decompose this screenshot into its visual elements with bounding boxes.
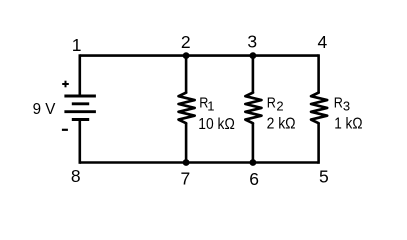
svg-text:1: 1 <box>207 99 214 114</box>
wire right branch node 4 to R3 <box>317 54 320 93</box>
junction dot node 3 <box>250 52 257 59</box>
junction dot node 6 <box>250 159 257 166</box>
resistor R2 zigzag <box>245 93 261 124</box>
junction dot node 2 <box>183 52 190 59</box>
wire branch node 2 to R1 <box>185 56 188 94</box>
wire bottom rail nodes 8-7-6-5 <box>80 161 319 164</box>
wire left branch lower (battery - to node 8) <box>79 120 82 164</box>
svg-text:3: 3 <box>343 98 350 113</box>
svg-text:7: 7 <box>181 169 191 189</box>
svg-text:2 kΩ: 2 kΩ <box>267 115 296 132</box>
svg-text:2: 2 <box>276 98 283 113</box>
battery + polarity mark <box>62 81 69 88</box>
svg-text:9 V: 9 V <box>33 101 56 118</box>
svg-text:3: 3 <box>247 32 257 52</box>
svg-text:8: 8 <box>71 166 81 186</box>
wire R3 to node 5 <box>317 123 320 164</box>
svg-text:R: R <box>334 95 343 111</box>
svg-text:4: 4 <box>318 32 328 52</box>
wire R1 to node 7 <box>185 123 188 163</box>
battery - polarity mark <box>62 129 68 131</box>
wire top rail nodes 1-2-3-4 <box>80 54 319 57</box>
wire branch node 3 to R2 <box>252 56 255 94</box>
wire left branch upper (node 1 to battery +) <box>79 54 82 95</box>
junction dot node 7 <box>183 159 190 166</box>
svg-text:6: 6 <box>249 169 259 189</box>
resistor R1 zigzag <box>179 93 195 124</box>
svg-text:1 kΩ: 1 kΩ <box>334 115 362 132</box>
svg-text:10 kΩ: 10 kΩ <box>198 116 235 133</box>
svg-text:2: 2 <box>181 32 191 52</box>
svg-text:R: R <box>267 95 276 111</box>
wire R2 to node 6 <box>252 123 255 163</box>
resistor R3 zigzag <box>311 93 327 124</box>
battery B1 9 V plates <box>64 96 96 120</box>
svg-text:1: 1 <box>72 35 82 55</box>
svg-text:5: 5 <box>319 167 329 187</box>
